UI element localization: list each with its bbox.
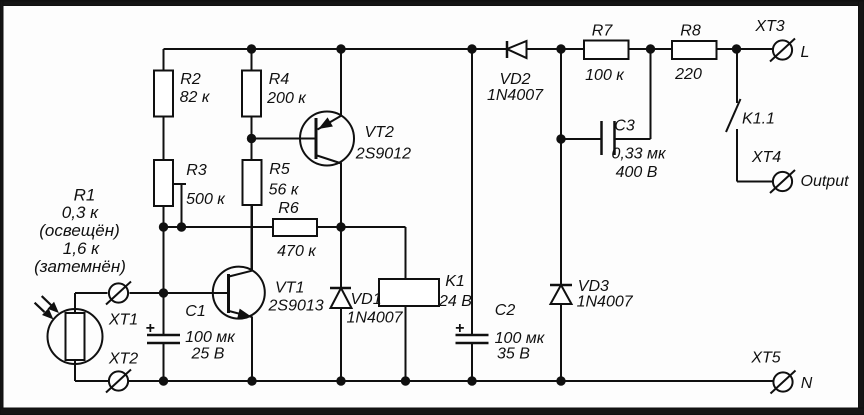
svg-text:24 В: 24 В	[438, 293, 472, 310]
svg-text:100 мк: 100 мк	[185, 329, 236, 346]
svg-text:+: +	[145, 320, 154, 337]
svg-text:82 к: 82 к	[180, 89, 211, 106]
svg-text:100 к: 100 к	[585, 67, 625, 84]
svg-text:(затемнён): (затемнён)	[34, 257, 126, 276]
svg-text:C3: C3	[614, 118, 635, 135]
svg-text:(освещён): (освещён)	[39, 221, 120, 240]
svg-text:R6: R6	[278, 200, 299, 217]
svg-text:VD2: VD2	[499, 71, 530, 88]
svg-text:1,6 к: 1,6 к	[63, 239, 100, 258]
svg-text:K1.1: K1.1	[742, 111, 775, 128]
svg-text:VD3: VD3	[578, 278, 609, 295]
svg-text:C1: C1	[185, 303, 205, 320]
svg-text:N: N	[801, 375, 813, 392]
svg-text:Output: Output	[801, 173, 850, 190]
svg-text:1N4007: 1N4007	[577, 294, 634, 311]
svg-text:2S9013: 2S9013	[268, 298, 324, 315]
svg-text:XT4: XT4	[751, 149, 781, 166]
svg-text:400 В: 400 В	[616, 164, 658, 181]
svg-text:VD1: VD1	[351, 291, 382, 308]
svg-text:2S9012: 2S9012	[355, 146, 411, 163]
svg-text:C2: C2	[495, 302, 516, 319]
svg-text:R2: R2	[180, 71, 201, 88]
svg-text:R3: R3	[186, 162, 207, 179]
svg-text:56 к: 56 к	[269, 182, 300, 199]
svg-text:25 В: 25 В	[191, 346, 225, 363]
svg-text:R8: R8	[680, 23, 701, 40]
svg-text:0,33 мк: 0,33 мк	[611, 146, 667, 163]
svg-text:0,3 к: 0,3 к	[62, 203, 99, 222]
svg-text:1N4007: 1N4007	[347, 310, 404, 327]
svg-text:470 к: 470 к	[277, 243, 317, 260]
svg-text:VT1: VT1	[275, 280, 304, 297]
svg-text:R5: R5	[269, 161, 290, 178]
svg-text:XT2: XT2	[108, 351, 138, 368]
svg-text:L: L	[801, 44, 810, 61]
svg-text:XT5: XT5	[750, 350, 780, 367]
svg-text:R7: R7	[592, 23, 614, 40]
svg-text:100 мк: 100 мк	[495, 330, 546, 347]
svg-text:R4: R4	[269, 71, 290, 88]
svg-text:XT1: XT1	[108, 312, 138, 329]
svg-text:1N4007: 1N4007	[487, 87, 544, 104]
svg-text:VT2: VT2	[365, 124, 394, 141]
svg-text:220: 220	[674, 66, 702, 83]
svg-text:+: +	[455, 320, 464, 337]
svg-text:200 к: 200 к	[266, 90, 307, 107]
svg-text:XT3: XT3	[754, 18, 784, 35]
svg-text:R1: R1	[74, 186, 96, 205]
svg-text:35 В: 35 В	[497, 346, 530, 363]
svg-text:500 к: 500 к	[186, 191, 226, 208]
svg-text:K1: K1	[445, 273, 465, 290]
